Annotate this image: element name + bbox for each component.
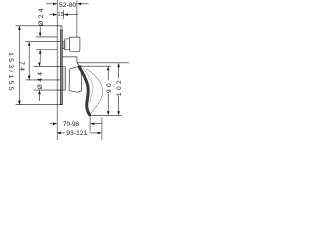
dim 74 xyxy=(26,42,61,80)
handle knuckle xyxy=(69,37,80,51)
handle cap xyxy=(65,39,70,50)
svg-text:52-80: 52-80 xyxy=(59,2,76,9)
dim O44 xyxy=(34,67,63,101)
svg-text:74: 74 xyxy=(18,61,25,73)
wall line xyxy=(56,0,58,140)
dim 70-98 xyxy=(50,115,102,131)
sleeve stub xyxy=(62,42,64,49)
lever front face outer xyxy=(86,69,103,114)
svg-text:15: 15 xyxy=(57,12,63,18)
svg-text:90: 90 xyxy=(106,81,113,93)
lever face inner edge xyxy=(83,68,93,103)
dim 90 xyxy=(80,66,112,111)
sleeve top edge xyxy=(62,57,77,62)
dim 52-80 xyxy=(46,1,89,38)
escutcheon plate xyxy=(60,26,62,105)
lever pivot base xyxy=(69,66,82,92)
svg-text:Ø24: Ø24 xyxy=(38,6,45,26)
sleeve O44 xyxy=(62,67,65,91)
svg-text:93-121: 93-121 xyxy=(66,130,87,137)
dim 153/155 xyxy=(16,26,63,105)
svg-text:70-98: 70-98 xyxy=(63,121,80,128)
dim 93-121 xyxy=(61,117,102,140)
dim O24 xyxy=(36,27,57,62)
lever arm band xyxy=(79,67,89,115)
lever neck curve xyxy=(77,62,81,66)
svg-text:153/155: 153/155 xyxy=(7,52,14,93)
dim 102 xyxy=(77,63,129,116)
svg-text:102: 102 xyxy=(116,78,123,96)
svg-text:Ø44: Ø44 xyxy=(37,70,44,90)
dim 15 xyxy=(50,10,79,19)
